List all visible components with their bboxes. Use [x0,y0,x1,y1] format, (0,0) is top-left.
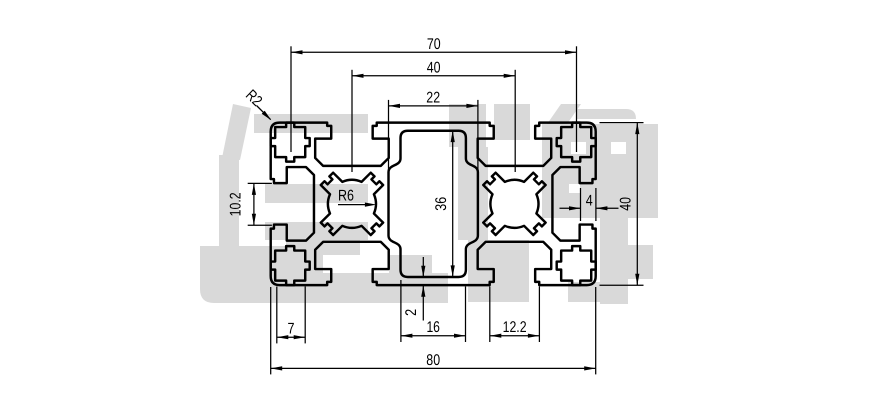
dimension 22 (cavity width) [388,100,390,196]
dimension 10.2 (slot opening) [248,182,272,184]
central cavity [389,131,478,277]
radius callout R6 [338,203,376,207]
corner screw hole bottom-left [271,246,310,285]
svg-text:40: 40 [618,197,635,211]
svg-text:40: 40 [427,59,441,76]
dimension 80 (overall width) [270,287,272,374]
dimension 40 (centre bore pitch) [351,70,353,172]
corner screw hole top-left [271,123,310,162]
dimension 2 [421,257,425,321]
svg-text:16: 16 [426,319,440,336]
dimension 7 (corner hole size) [276,287,278,344]
dimension 4 (slot lip depth) [580,188,582,221]
svg-text:4: 4 [586,192,593,209]
svg-text:R2: R2 [242,87,265,110]
centre bore left (R6 with lobes) [321,173,383,235]
dimension 40 (overall height) [600,122,644,124]
svg-text:7: 7 [288,321,295,338]
radius callout R2 [257,106,272,121]
svg-text:12.2: 12.2 [503,319,527,336]
corner screw hole bottom-right [557,246,596,285]
dimension 36 (cavity height) [451,131,455,277]
dimension 12.2 (slot step width) [489,287,491,343]
centre bore right (R6 with lobes) [483,173,545,235]
svg-text:70: 70 [427,36,441,53]
svg-text:36: 36 [433,197,450,211]
watermark background characters [200,104,658,304]
corner screw hole top-right [557,123,596,162]
svg-text:2: 2 [403,309,420,316]
svg-text:22: 22 [426,89,440,106]
dimension 70 (corner hole pitch) [290,46,292,152]
svg-text:10.2: 10.2 [228,192,245,216]
profile outer contour with T-slots [271,123,596,286]
dimension 16 (cavity neck width) [400,280,402,342]
svg-text:R6: R6 [338,187,354,204]
svg-text:80: 80 [426,352,440,369]
